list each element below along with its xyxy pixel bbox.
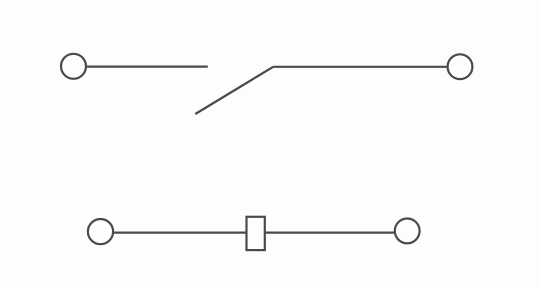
wire (bottom-left terminal to coil K1) — [114, 232, 246, 234]
switch S1 blade (open contact) — [195, 67, 273, 114]
wire (coil K1 to bottom-right terminal) — [266, 232, 394, 234]
terminal X2 (top-right circle) — [448, 54, 473, 79]
wire (top-left terminal to switch) — [87, 65, 208, 67]
terminal X1 (top-left circle) — [61, 54, 86, 79]
coil K1 (rectangle element) — [247, 217, 265, 250]
terminal X4 (bottom-right circle) — [395, 219, 420, 244]
terminal X3 (bottom-left circle) — [88, 219, 113, 244]
wire (switch to top-right terminal) — [273, 66, 447, 68]
